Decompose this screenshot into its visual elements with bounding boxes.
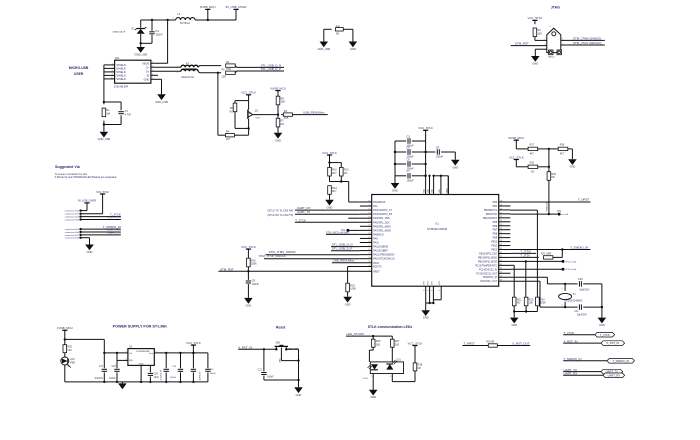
- svg-text:PA8/MCO: PA8/MCO: [373, 233, 384, 236]
- svg-text:9: 9: [429, 189, 431, 190]
- resistor R15: [346, 283, 357, 292]
- resistor R4 labels: [226, 130, 231, 141]
- wire C19 top: [180, 353, 182, 368]
- net label X_RST_IN flag: [564, 339, 578, 343]
- net label UART_TX flag: [564, 368, 577, 372]
- svg-text:VCC_STLK: VCC_STLK: [241, 91, 256, 95]
- junction: [103, 123, 105, 125]
- wire VBUS rail left: [141, 19, 176, 21]
- power flag 5USB_MCU: [200, 5, 216, 20]
- svg-text:20: 20: [500, 208, 502, 210]
- net flag T_JTCK: [595, 332, 615, 337]
- wire C18 top: [116, 353, 118, 368]
- junction: [525, 310, 527, 312]
- svg-text:100K: 100K: [251, 262, 257, 266]
- svg-text:PD0/OSC_IN: PD0/OSC_IN: [483, 276, 497, 279]
- net label T_JTCK mcu: [295, 218, 306, 222]
- svg-text:GND: GND: [599, 323, 605, 327]
- svg-text:INH: INH: [129, 360, 133, 362]
- net label STM_JTCK jtag: [573, 41, 601, 45]
- svg-text:8: 8: [424, 290, 426, 291]
- wire OSC_IN rail: [510, 277, 577, 284]
- choke L1 common-mode filter: [177, 62, 200, 79]
- inductor L2 coil: [176, 18, 195, 20]
- svg-text:PA4/SPI1_NSS: PA4/SPI1_NSS: [373, 217, 390, 220]
- title POWER SUPPLY: [113, 324, 168, 328]
- wire R24 gnd: [526, 306, 537, 312]
- svg-text:STM_JTCK (SWCLK): STM_JTCK (SWCLK): [573, 41, 601, 45]
- svg-text:STM_JTMS (SWDIO): STM_JTMS (SWDIO): [573, 36, 601, 40]
- svg-text:D-: D-: [147, 66, 150, 69]
- svg-text:(STLK RX To CN3 TX): (STLK RX To CN3 TX): [267, 213, 293, 217]
- svg-text:PB2/BOOT1: PB2/BOOT1: [484, 209, 498, 212]
- svg-text:STM_RST: STM_RST: [220, 267, 234, 271]
- junction: [394, 151, 396, 153]
- svg-text:POWER SUPPLY FOR ST-LINK: POWER SUPPLY FOR ST-LINK: [113, 324, 168, 328]
- wire D1 C4 join: [141, 34, 152, 44]
- resistor R19: [528, 165, 538, 168]
- capacitor C20 labels: [154, 373, 160, 379]
- power flag VUSB_MCU divider: [270, 86, 286, 93]
- junction bottom rail: [149, 381, 151, 383]
- svg-text:PA9: PA9: [373, 237, 378, 240]
- svg-text:2: 2: [390, 376, 391, 378]
- resistor R17: [528, 147, 538, 150]
- wire C13 top: [207, 353, 209, 368]
- wire VSS to gnd: [425, 303, 427, 310]
- wire LD4 to rail: [64, 365, 66, 382]
- svg-text:9: 9: [112, 74, 113, 76]
- svg-text:5V_USB_CHGR: 5V_USB_CHGR: [226, 5, 247, 9]
- svg-text:U1: U1: [435, 222, 439, 226]
- svg-text:T_SWDIO_IN: T_SWDIO_IN: [613, 359, 629, 363]
- resistor R23: [524, 297, 534, 306]
- svg-text:16: 16: [368, 225, 370, 227]
- wire R8 to node: [277, 105, 279, 115]
- wire RC bottom: [104, 115, 121, 124]
- svg-text:JTAG: JTAG: [551, 5, 560, 9]
- wire D+ down to R4: [218, 73, 225, 135]
- svg-text:Suggested Via: Suggested Via: [55, 165, 81, 169]
- wire decoupling left bus: [394, 141, 396, 183]
- svg-text:PC13/TAMPER-RTC: PC13/TAMPER-RTC: [475, 264, 497, 267]
- svg-text:5USB_MCU: 5USB_MCU: [509, 136, 525, 140]
- svg-text:R13: R13: [344, 168, 349, 172]
- junction: [103, 101, 105, 103]
- svg-text:GND_USB: GND_USB: [134, 53, 147, 57]
- svg-text:R17: R17: [530, 144, 535, 147]
- svg-text:R23: R23: [529, 297, 534, 301]
- svg-text:22R: 22R: [226, 67, 231, 71]
- power flag VCC_STLK pullup: [322, 151, 337, 163]
- junction: [328, 161, 330, 163]
- wire cap row left: [395, 140, 406, 142]
- svg-text:connection Via5: connection Via5: [65, 228, 80, 231]
- net label STM_JTCK mcu: [259, 254, 286, 258]
- resistor R8: [276, 96, 285, 105]
- wire T_SWDIO_IN PB12: [510, 249, 590, 251]
- svg-text:4.7nF: 4.7nF: [125, 113, 132, 117]
- svg-text:R26: R26: [376, 339, 381, 343]
- wire LED left to gnd: [372, 374, 374, 390]
- net label X_RST_IN reset: [238, 345, 252, 349]
- svg-text:18pF/20V: 18pF/20V: [577, 315, 587, 317]
- svg-text:35: 35: [500, 268, 502, 270]
- wire PB3 to TP: [510, 213, 556, 215]
- junction bottom rail: [192, 381, 194, 383]
- wire via7 UART_TX: [81, 234, 121, 236]
- svg-text:C21: C21: [258, 369, 263, 371]
- junction vout rail: [192, 352, 194, 354]
- svg-text:19: 19: [500, 204, 502, 206]
- net label T_JTCK via: [110, 212, 121, 216]
- capacitor C13: [205, 369, 210, 371]
- svg-text:6: 6: [112, 63, 113, 65]
- wire SW1 second pin: [281, 348, 298, 361]
- svg-text:22: 22: [500, 216, 502, 218]
- junction: [601, 306, 603, 308]
- svg-text:21: 21: [368, 245, 370, 247]
- svg-text:T_JTCK: T_JTCK: [600, 333, 610, 337]
- svg-text:PA12/USBDP: PA12/USBDP: [373, 250, 388, 253]
- wire VUSB to R5b: [277, 93, 279, 96]
- svg-text:PB11: PB11: [492, 245, 498, 248]
- resistor R29: [488, 344, 497, 347]
- wire STL_USB_D_P PA12: [331, 250, 360, 252]
- svg-text:24: 24: [500, 224, 502, 226]
- svg-text:T_NRST: T_NRST: [578, 198, 590, 202]
- wire STM_RST to C9: [247, 271, 249, 280]
- svg-text:18: 18: [500, 200, 502, 202]
- svg-text:C20: C20: [154, 373, 159, 375]
- net label PWR_ENn: [546, 201, 548, 212]
- svg-text:2: 2: [196, 18, 197, 20]
- ground STM_RST cap: [244, 298, 253, 308]
- svg-text:PC14/OSC32_IN: PC14/OSC32_IN: [479, 268, 497, 271]
- wire STM_JTMS PA13: [266, 254, 360, 256]
- wire C21 to gnd rail: [264, 376, 299, 380]
- svg-text:T_SWDIO_IN: T_SWDIO_IN: [570, 245, 588, 249]
- junction bottom rail: [116, 381, 118, 383]
- power flag VCC_STLK via: [96, 191, 109, 194]
- power flag VCC_STLK psu: [186, 341, 201, 353]
- capacitor C21: [261, 373, 266, 375]
- svg-text:R1: R1: [106, 108, 110, 112]
- svg-text:R2: R2: [226, 60, 230, 64]
- svg-text:PA6/SPI1_MISO: PA6/SPI1_MISO: [373, 225, 391, 228]
- svg-text:PA13/JTMS/SWDIO: PA13/JTMS/SWDIO: [373, 254, 394, 257]
- svg-text:USB_RENUMns: USB_RENUMns: [333, 258, 355, 262]
- resistor R19 labels: [530, 162, 535, 174]
- svg-text:10K: 10K: [281, 100, 286, 104]
- svg-text:connection Via8: connection Via8: [65, 237, 80, 240]
- svg-text:NC: NC: [281, 122, 285, 126]
- wire net tie gnd drop: [352, 29, 354, 41]
- svg-text:14: 14: [368, 217, 370, 219]
- svg-text:no stuff: no stuff: [562, 213, 569, 216]
- wire to D1: [140, 20, 142, 28]
- svg-text:C18: C18: [111, 366, 116, 368]
- power flag VCC_STLK renum: [241, 91, 256, 101]
- note suggested via line1: [55, 173, 88, 176]
- wire U2 byp: [149, 365, 151, 372]
- svg-text:PA7/SPI1_MOSI: PA7/SPI1_MOSI: [373, 229, 391, 232]
- wire INH row: [117, 359, 128, 361]
- svg-text:R25: R25: [67, 345, 72, 349]
- wire UART_TX PA3: [295, 213, 360, 215]
- svg-text:SMAJ5.0A-TR: SMAJ5.0A-TR: [113, 31, 126, 34]
- svg-text:GND: GND: [87, 250, 93, 254]
- svg-text:PD1/OSC_OUT: PD1/OSC_OUT: [480, 280, 497, 283]
- svg-text:1: 1: [371, 376, 372, 378]
- wire R17 to node: [538, 148, 549, 150]
- svg-text:SHIELD: SHIELD: [116, 73, 126, 77]
- capacitor C10 value: [579, 289, 589, 291]
- wire pullup join: [330, 176, 342, 182]
- junction bottom rail: [165, 381, 167, 383]
- svg-text:5V_USB_CHGR: 5V_USB_CHGR: [78, 200, 97, 203]
- svg-text:23: 23: [500, 220, 502, 222]
- ground GND_USB CN1: [155, 94, 168, 104]
- junction: [548, 213, 550, 215]
- junction: [513, 310, 515, 312]
- resistor R12: [328, 167, 338, 176]
- wire STM_RST: [218, 270, 360, 272]
- svg-text:R19: R19: [530, 162, 535, 165]
- wire pullup left top: [329, 163, 331, 168]
- junction: [372, 335, 374, 337]
- svg-text:1: 1: [545, 39, 546, 41]
- svg-text:C6: C6: [407, 157, 411, 161]
- svg-text:R18: R18: [560, 144, 565, 147]
- resistor R22: [512, 297, 522, 306]
- resistor R25: [63, 345, 73, 353]
- svg-text:C17: C17: [99, 366, 104, 368]
- net label STM_JTMS jtag: [573, 36, 601, 40]
- junction VDD rail: [428, 175, 430, 177]
- wire via1: [81, 203, 87, 211]
- svg-text:SW1: SW1: [275, 343, 281, 345]
- svg-text:R29 0R: R29 0R: [486, 342, 494, 344]
- wire psu top rail: [65, 339, 105, 353]
- power flag VCC_STLK nrst: [241, 245, 256, 255]
- svg-text:100nF: 100nF: [210, 373, 217, 375]
- svg-text:R16: R16: [251, 258, 256, 262]
- resistor R13: [340, 167, 350, 176]
- junction: [64, 338, 66, 340]
- wire shield bus: [103, 65, 105, 102]
- title MICRO-USB: [69, 66, 89, 70]
- junction: [116, 352, 118, 354]
- svg-text:100: 100: [67, 348, 72, 352]
- power flag VCC_STLK right: [509, 155, 524, 167]
- svg-text:PB6: PB6: [493, 225, 498, 228]
- wire R28 top: [414, 362, 416, 364]
- net label T_JTDO: [520, 249, 531, 253]
- svg-text:STM_RST: STM_RST: [515, 41, 529, 45]
- svg-text:22: 22: [368, 249, 370, 251]
- wire ID stub: [151, 74, 158, 76]
- net flag UART_TX: [601, 369, 623, 374]
- wire R22 gnd: [513, 306, 515, 312]
- resistor R18 labels: [560, 144, 565, 156]
- wire to R6: [234, 101, 236, 104]
- wire via4 X_RST_IN: [81, 219, 121, 221]
- wire via3 T_JTCK: [81, 216, 121, 218]
- wire C17 top: [103, 353, 105, 368]
- svg-text:11: 11: [369, 204, 371, 206]
- wire decoupling right bus: [425, 130, 427, 176]
- U1 VSS pin stubs: [424, 280, 442, 303]
- ground renum: [274, 133, 283, 143]
- net flag T_SWDIO_IN: [607, 359, 635, 364]
- wire OSC_OUT rail: [510, 281, 577, 307]
- svg-text:C7: C7: [407, 169, 411, 173]
- svg-text:PB0: PB0: [493, 201, 498, 204]
- svg-text:T_SWDIO_IN: T_SWDIO_IN: [564, 357, 582, 361]
- svg-text:PA11/USBDM: PA11/USBDM: [373, 246, 388, 249]
- wire cap row right: [412, 163, 426, 165]
- svg-text:VCC_STLK: VCC_STLK: [186, 341, 201, 345]
- title STLK LEDs: [368, 325, 413, 329]
- svg-text:GND: GND: [144, 78, 150, 81]
- svg-text:44: 44: [368, 265, 370, 267]
- svg-text:31: 31: [500, 252, 502, 254]
- wire via8 gnd: [81, 238, 90, 245]
- junction VDD rail: [424, 175, 426, 177]
- wire crystal gnd: [601, 307, 603, 318]
- svg-text:connection Via3: connection Via3: [65, 216, 80, 219]
- wire TP4 to PA7: [348, 229, 360, 231]
- wire RC top: [104, 102, 121, 110]
- wire to C8: [426, 151, 436, 153]
- resistor R18: [558, 147, 568, 150]
- wire T_JTDO PB13: [510, 252, 536, 254]
- resistor R30 labels: [336, 26, 341, 35]
- svg-text:100nF: 100nF: [252, 282, 260, 286]
- capacitor C20: [148, 373, 153, 375]
- junction: [247, 127, 249, 129]
- resistor R2: [226, 60, 236, 71]
- svg-text:BOOT0: BOOT0: [373, 266, 382, 269]
- svg-text:VCC_STLK: VCC_STLK: [418, 126, 433, 130]
- wire X_RST_IN: [238, 348, 276, 350]
- wire PB2 BOOT1 down: [510, 210, 537, 297]
- net label T_NRST mcu: [578, 198, 590, 202]
- wire flag UART_RX: [563, 374, 603, 376]
- svg-text:PB15/SPI2_MOSI: PB15/SPI2_MOSI: [478, 260, 497, 263]
- svg-text:15: 15: [368, 221, 370, 223]
- wire USB_RENUM stub: [292, 114, 327, 116]
- svg-text:Reset: Reset: [276, 325, 286, 329]
- svg-text:2: 2: [561, 305, 562, 307]
- svg-text:VCC_STLK: VCC_STLK: [96, 191, 109, 194]
- wire PB15 down: [525, 261, 527, 297]
- svg-text:VUSB_MCU: VUSB_MCU: [270, 86, 286, 90]
- CN1 shield pin wires and pin numbers: [104, 63, 115, 79]
- svg-text:SHIELD: SHIELD: [116, 77, 126, 81]
- junction: [151, 19, 153, 21]
- wire C19 bottom: [180, 372, 182, 382]
- wire R21 to SWDIO net: [553, 250, 562, 258]
- wire flag T_JTCK: [563, 334, 595, 336]
- ground pullup: [325, 200, 334, 210]
- resistor R27: [391, 339, 401, 347]
- junction VSS: [428, 302, 430, 304]
- wire R6 bottom loop: [235, 112, 249, 129]
- wire STL_USB_D_N PA11: [331, 246, 360, 248]
- ground jtag: [531, 56, 540, 66]
- ground C8: [451, 160, 460, 170]
- svg-text:9: 9: [440, 189, 442, 190]
- ground pulldowns: [510, 318, 519, 328]
- wire R16 to STM_RST: [247, 267, 249, 272]
- wire C18 bottom: [116, 372, 118, 382]
- svg-text:X_RST_IN: X_RST_IN: [238, 345, 252, 349]
- svg-text:5USB_MCU: 5USB_MCU: [200, 5, 216, 9]
- svg-text:R27: R27: [395, 339, 400, 343]
- svg-text:4K7: 4K7: [530, 152, 535, 155]
- wire UART_RX PA2: [295, 209, 360, 211]
- svg-text:PC15/OSC32_OUT: PC15/OSC32_OUT: [476, 272, 497, 275]
- svg-text:X_RST_IN: X_RST_IN: [564, 339, 578, 343]
- svg-text:1: 1: [561, 288, 562, 290]
- power flag VCC_STLK decoupling: [418, 126, 433, 130]
- svg-text:38: 38: [500, 280, 502, 282]
- wire R26 to LED box: [369, 347, 373, 362]
- svg-text:GND: GND: [423, 316, 429, 320]
- wire R19 to node: [538, 166, 549, 168]
- capacitor C18 labels: [109, 366, 116, 380]
- resistor R21 labels: [541, 253, 552, 255]
- svg-text:GND: GND: [392, 189, 398, 193]
- svg-text:GND: GND: [279, 358, 281, 363]
- svg-text:R20: R20: [551, 172, 556, 176]
- svg-text:25: 25: [368, 261, 370, 263]
- resistor R5 labels: [222, 68, 227, 78]
- svg-text:1uF/6.3V: 1uF/6.3V: [200, 371, 202, 380]
- svg-text:GND: GND: [532, 62, 538, 66]
- wire LED_STLINK: [346, 335, 392, 337]
- svg-text:24: 24: [368, 257, 370, 259]
- ground decoupling: [391, 183, 400, 193]
- crystal X1: [559, 284, 583, 307]
- net flag UART_RX: [603, 373, 625, 378]
- power flag VCC_STLK led: [408, 341, 423, 362]
- net label T_SWDIO_IN via: [103, 225, 121, 229]
- junction: [561, 248, 563, 250]
- junction: [207, 19, 209, 21]
- svg-text:PB3/JTDO: PB3/JTDO: [486, 213, 498, 216]
- wire STL_USB_D_P: [235, 71, 284, 73]
- power flag 5V_USB_CHGR: [226, 5, 247, 20]
- op-amp U1 MCU STM32F103CB body: [372, 195, 499, 287]
- junction: [263, 348, 265, 350]
- svg-text:0R: 0R: [418, 366, 421, 370]
- svg-text:R3: R3: [284, 109, 288, 113]
- svg-text:2: 2: [148, 369, 149, 371]
- junction: [548, 148, 550, 150]
- capacitor C10: [578, 277, 583, 286]
- resistor R1: [102, 108, 110, 117]
- wire VUSB to R25: [64, 339, 66, 344]
- net label STLK_MCO: [326, 231, 349, 234]
- capacitor C8: [436, 145, 444, 158]
- net label T_JTDI: [520, 254, 529, 258]
- svg-text:8: 8: [428, 290, 430, 291]
- svg-text:28: 28: [500, 240, 502, 242]
- svg-text:VBUS: VBUS: [142, 62, 149, 65]
